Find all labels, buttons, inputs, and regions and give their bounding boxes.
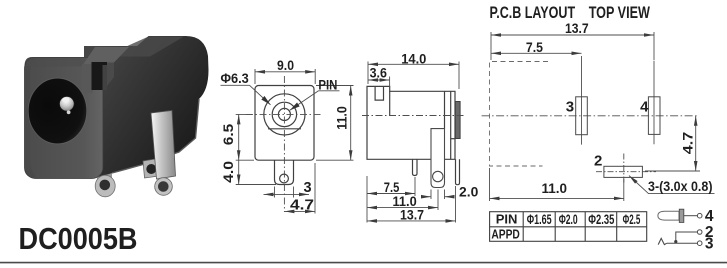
dim 3.6 extension: [389, 77, 391, 88]
svg-text:3: 3: [304, 180, 312, 196]
svg-text:4.0: 4.0: [220, 161, 236, 183]
PIN leader: [319, 90, 340, 92]
side centerline: [362, 115, 464, 117]
jack top face lit wedge: [104, 37, 184, 57]
dia 6.3 leader: [221, 84, 250, 86]
dim 3.6 line: [368, 79, 390, 81]
barrel chord: [268, 128, 301, 130]
svg-text:4: 4: [705, 208, 714, 225]
side rear lug: [431, 129, 445, 188]
dim 4.7 extension: [645, 170, 700, 172]
svg-text:4.7: 4.7: [679, 132, 695, 155]
pad3 centerline: [581, 56, 583, 145]
pad 3: [576, 97, 588, 135]
pin 2 lead: [676, 232, 698, 241]
pad2 horizontal centerline: [596, 171, 656, 173]
dim 3 extension: [274, 187, 276, 198]
svg-text:13.7: 13.7: [400, 207, 424, 223]
side rear lug hole: [433, 171, 443, 181]
dim 7.5 extension: [414, 177, 416, 196]
front lug: [275, 160, 294, 184]
svg-text:4: 4: [640, 99, 649, 116]
table row divider: [490, 226, 647, 228]
dim 6.5 line: [238, 114, 240, 160]
dim 13.7 line: [367, 220, 456, 222]
dim 6.5 extension: [236, 113, 252, 115]
svg-text:3: 3: [566, 99, 574, 116]
inner circle: [272, 102, 296, 126]
svg-text:3: 3: [705, 235, 714, 252]
side barrel inner bottom tick: [451, 138, 455, 140]
dim 13.7 extensions: [490, 32, 492, 60]
svg-text:14.0: 14.0: [401, 51, 426, 67]
table column dividers: [522, 212, 524, 242]
jack top tab top surface: [82, 47, 129, 66]
dim 11.0 line: [350, 86, 352, 161]
barrel circle: [264, 94, 305, 135]
dim 4.0 line: [238, 160, 240, 184]
side body outline: [367, 86, 455, 159]
svg-text:Φ2.0: Φ2.0: [559, 211, 578, 227]
dim 7.5 line: [367, 193, 415, 195]
jack rear rim highlight: [112, 99, 199, 173]
svg-text:11.0: 11.0: [334, 106, 350, 130]
svg-text:2: 2: [594, 152, 602, 169]
jack tab front facet: [82, 64, 93, 93]
svg-text:7.5: 7.5: [526, 39, 543, 55]
pin 2 contact dot: [674, 240, 677, 243]
svg-text:PIN: PIN: [318, 78, 337, 93]
pin circle: [278, 108, 290, 120]
jack center pin: [60, 97, 75, 112]
dim 9.0 extension lines: [254, 69, 256, 84]
dim 2.0 extensions: [430, 190, 432, 200]
svg-text:3.6: 3.6: [370, 65, 387, 81]
pin 3 spring contact: [658, 238, 667, 244]
svg-text:PIN: PIN: [496, 212, 518, 227]
pad2 centerline: [623, 154, 625, 185]
pin 4 terminal circle: [697, 213, 702, 218]
svg-text:9.0: 9.0: [277, 57, 294, 73]
front lug hole: [280, 174, 289, 183]
jack body silhouette: [25, 36, 209, 178]
leader 3x0.8: [629, 176, 715, 194]
pcb dashed outline: [490, 62, 549, 167]
side tab inner edge: [389, 91, 391, 115]
pin 3 terminal circle: [697, 241, 702, 246]
svg-text:Φ2.35: Φ2.35: [588, 211, 614, 227]
dim 4.7 line: [695, 116, 697, 171]
svg-text:Φ2.5: Φ2.5: [623, 211, 641, 227]
pad 4: [648, 97, 660, 135]
jack barrel hole: [28, 78, 86, 144]
dim 4.7 extension: [314, 163, 316, 214]
jack tab slot: [92, 62, 108, 90]
dim 7.5 line: [491, 52, 582, 54]
side left leg: [413, 159, 418, 175]
svg-text:2.0: 2.0: [459, 183, 479, 199]
dim 2.0 arrows: [424, 196, 432, 198]
pin 4 lead: [684, 215, 698, 217]
bottom rule: [0, 262, 727, 264]
svg-text:APPD: APPD: [491, 227, 520, 242]
svg-text:6.5: 6.5: [220, 124, 236, 146]
jack tab right wall: [107, 63, 114, 87]
svg-text:3-(3.0x 0.8): 3-(3.0x 0.8): [648, 178, 713, 194]
dim 11.0 line: [367, 207, 438, 209]
side inner line b: [450, 91, 452, 159]
dim 14.0 line: [368, 63, 459, 65]
dim 11.0 line: [490, 197, 624, 199]
svg-text:DC0005B: DC0005B: [19, 222, 138, 256]
dim 14.0 extensions: [367, 62, 369, 85]
svg-text:Φ6.3: Φ6.3: [221, 70, 249, 86]
pin 4 plug tip: [658, 211, 679, 220]
jack rear hole lug: [143, 159, 160, 179]
svg-text:Φ1.65: Φ1.65: [527, 211, 552, 227]
dim 13.7 extensions: [366, 176, 368, 223]
svg-text:TOP VIEW: TOP VIEW: [589, 3, 650, 22]
svg-text:P.C.B LAYOUT: P.C.B LAYOUT: [490, 3, 576, 22]
svg-text:4.7: 4.7: [290, 198, 314, 214]
side inner line a (lug right edge up): [444, 91, 446, 128]
dim 13.7 line: [491, 34, 654, 36]
dim 4.7 line: [284, 210, 315, 212]
dim 9.0 line: [255, 71, 315, 73]
jack right terminal end with hole: [155, 178, 173, 196]
front vertical centerline: [283, 76, 285, 212]
pcb centerline: [482, 115, 699, 117]
table frame: [490, 212, 647, 242]
pin 2 terminal circle: [697, 230, 702, 235]
jack face top bevel: [26, 58, 106, 68]
pin 3 lead: [667, 242, 698, 244]
dim 11.0 extensions: [489, 168, 491, 201]
pad 2: [604, 166, 643, 177]
dim 11.0 extension lines: [316, 85, 354, 87]
dim 3 line: [264, 193, 310, 195]
jack front face: [25, 58, 104, 179]
side barrel stub: [455, 102, 460, 139]
jack tab slot inner wall: [103, 65, 108, 90]
side tab notch: [375, 86, 383, 100]
dim 11.0 extension: [437, 190, 439, 211]
svg-text:11.0: 11.0: [542, 180, 568, 196]
front body outline: [255, 86, 314, 161]
jack face left edge shading: [26, 59, 37, 178]
svg-text:13.7: 13.7: [565, 20, 589, 36]
jack left terminal neck: [97, 172, 112, 182]
pin 4 flange: [679, 209, 684, 222]
jack left terminal with hole: [95, 175, 115, 197]
pad4 centerline: [653, 61, 655, 144]
jack flat terminal: [151, 111, 176, 180]
side right pin: [456, 159, 460, 184]
front horizontal centerline: [246, 113, 322, 115]
